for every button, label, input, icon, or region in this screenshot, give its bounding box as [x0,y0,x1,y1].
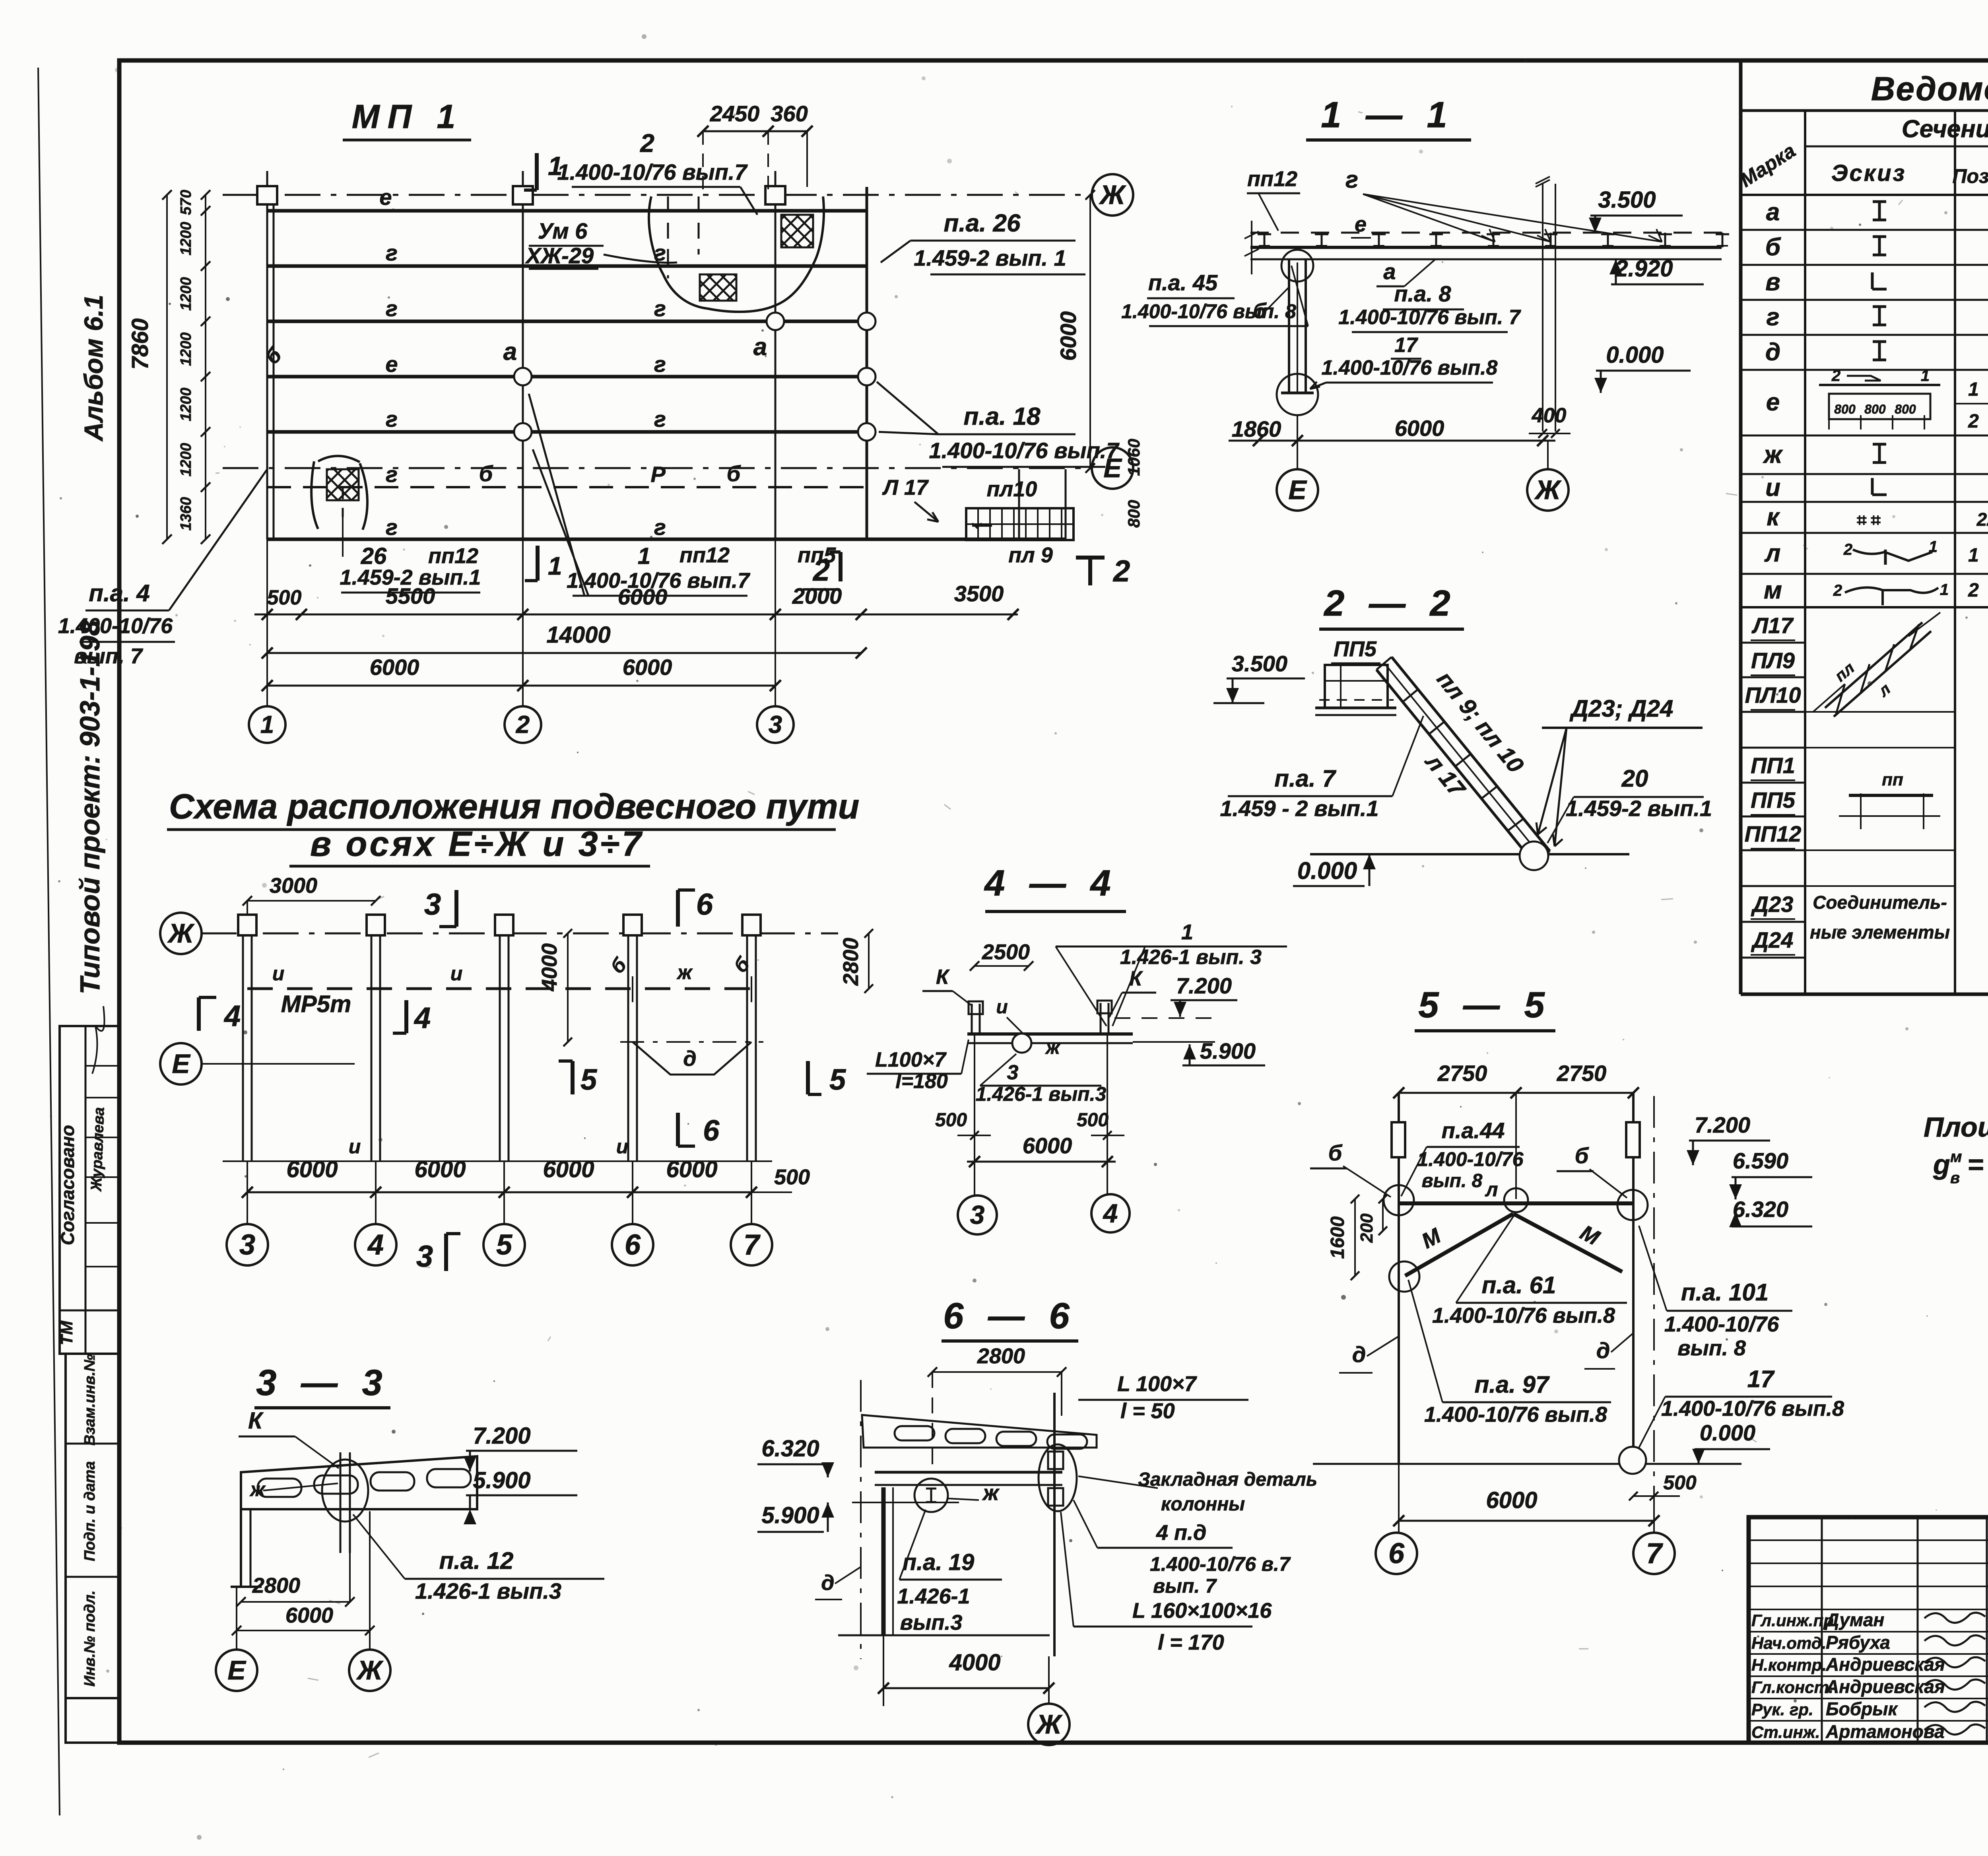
svg-text:вып.3: вып.3 [900,1611,963,1634]
svg-text:а: а [1383,259,1396,284]
svg-text:2: 2 [1831,367,1840,385]
svg-text:Е: Е [227,1655,247,1685]
svg-text:Площадка рассчитана на нагр: Площадка рассчитана на нагрузку [1924,1112,1988,1143]
svg-text:2800: 2800 [252,1574,300,1598]
svg-text:3.500: 3.500 [1232,651,1287,676]
svg-text:⌗ ⌗: ⌗ ⌗ [1857,511,1881,529]
svg-text:L 160×100×16: L 160×100×16 [1132,1599,1272,1623]
svg-text:4 п.д: 4 п.д [1156,1521,1206,1545]
svg-text:п.а. 61: п.а. 61 [1482,1272,1556,1298]
svg-text:1.400-10/76 вып.8: 1.400-10/76 вып.8 [1424,1403,1607,1426]
svg-text:2750: 2750 [1437,1061,1487,1086]
svg-text:0.000: 0.000 [1606,342,1664,368]
svg-text:2450: 2450 [710,101,760,126]
svg-text:п.а. 101: п.а. 101 [1681,1279,1769,1306]
svg-text:е: е [1355,212,1367,236]
svg-text:Андриевская: Андриевская [1825,1654,1945,1675]
svg-text:д: д [1352,1342,1366,1367]
svg-text:3500: 3500 [954,581,1004,606]
svg-text:и: и [1765,474,1780,501]
svg-text:Схема расположения подвесног: Схема расположения подвесного пути [169,787,859,826]
svg-text:вып. 8: вып. 8 [1422,1170,1483,1191]
svg-text:1.400-10/76 в.7: 1.400-10/76 в.7 [1150,1553,1291,1575]
svg-text:1.400-10/76: 1.400-10/76 [1664,1312,1779,1336]
svg-text:4: 4 [1103,1198,1118,1228]
svg-text:м: м [1764,577,1782,604]
svg-text:п.а. 18: п.а. 18 [964,403,1041,430]
svg-text:пп12: пп12 [1247,167,1297,191]
svg-text:1: 1 [1968,379,1979,400]
svg-text:Ж: Ж [356,1655,384,1685]
svg-text:1 — 1: 1 — 1 [1321,95,1454,135]
svg-text:2: 2 [1112,554,1130,588]
svg-text:6000: 6000 [543,1156,594,1182]
svg-text:7: 7 [1646,1537,1663,1569]
svg-text:6.320: 6.320 [1733,1197,1788,1222]
svg-text:п.а. 45: п.а. 45 [1148,270,1218,295]
svg-text:5500: 5500 [386,583,435,608]
svg-text:14000: 14000 [546,622,610,648]
svg-text:ПП1: ПП1 [1751,753,1795,778]
svg-text:2: 2 [1843,541,1852,558]
svg-text:1.459 - 2 вып.1: 1.459 - 2 вып.1 [1220,796,1378,821]
svg-text:ПП12: ПП12 [1745,821,1802,846]
svg-text:к: к [1767,503,1780,531]
svg-text:ные элементы: ные элементы [1810,922,1950,943]
svg-text:Е: Е [172,1049,191,1079]
svg-text:е: е [379,185,392,210]
svg-text:Рябуха: Рябуха [1826,1632,1890,1653]
svg-text:Согласовано: Согласовано [57,1125,78,1245]
svg-text:800: 800 [1895,402,1916,416]
svg-text:17: 17 [1394,334,1418,357]
svg-text:Н.контр.: Н.контр. [1751,1656,1827,1674]
svg-text:г: г [654,352,666,377]
svg-text:Подп. и дата: Подп. и дата [82,1461,98,1561]
svg-text:1200: 1200 [178,388,194,422]
svg-text:ж: ж [1044,1037,1061,1058]
svg-text:1360: 1360 [178,497,194,531]
svg-text:а: а [503,338,517,365]
svg-text:L100×7: L100×7 [875,1048,947,1071]
svg-text:Ведомость элементов на л. К: Ведомость элементов на л. КМ-5 [1871,70,1988,107]
svg-text:6000: 6000 [370,655,419,680]
svg-text:Закладная деталь: Закладная деталь [1138,1469,1317,1490]
svg-text:4000: 4000 [538,943,561,991]
svg-text:Ж: Ж [167,918,195,948]
svg-text:Л17: Л17 [1751,613,1794,638]
svg-text:ж: ж [249,1478,266,1500]
svg-text:200: 200 [1357,1213,1376,1243]
svg-text:2: 2 [1968,411,1979,432]
svg-text:6: 6 [625,1229,641,1261]
svg-text:г: г [654,296,666,321]
svg-text:6000: 6000 [1023,1133,1072,1158]
svg-text:2750: 2750 [1557,1061,1607,1086]
svg-text:д: д [1765,338,1780,366]
svg-text:а: а [1766,198,1780,226]
svg-text:1.400-10/76 вып. 7: 1.400-10/76 вып. 7 [1338,306,1521,329]
svg-text:г: г [1345,166,1358,193]
svg-text:400: 400 [1532,404,1567,427]
svg-text:3: 3 [1007,1061,1019,1084]
svg-text:и: и [996,997,1008,1018]
svg-text:3: 3 [424,888,441,921]
svg-text:Нач.отд.: Нач.отд. [1751,1634,1826,1652]
svg-text:Гл.инж.пр: Гл.инж.пр [1751,1611,1834,1630]
svg-text:6000: 6000 [1486,1487,1537,1513]
svg-text:1: 1 [548,552,562,580]
svg-text:в осях Е÷Ж и 3÷7: в осях Е÷Ж и 3÷7 [310,824,644,863]
svg-text:1.400-10/76: 1.400-10/76 [58,614,173,638]
svg-text:0.000: 0.000 [1297,857,1357,884]
svg-text:800: 800 [1124,500,1143,528]
svg-text:а: а [753,333,767,361]
svg-text:г: г [654,406,666,431]
svg-text:l=180: l=180 [895,1070,948,1093]
svg-text:6: 6 [1388,1537,1405,1569]
svg-text:г: г [386,515,398,540]
svg-text:Гл.конст.: Гл.конст. [1751,1678,1833,1697]
svg-text:Инв.№ подл.: Инв.№ подл. [82,1590,98,1687]
svg-text:6: 6 [703,1114,720,1147]
svg-text:в: в [1765,268,1780,296]
svg-text:Д23: Д23 [1751,892,1794,917]
svg-text:г: г [386,296,398,321]
svg-text:1.400-10/76 вып.7: 1.400-10/76 вып.7 [557,159,748,185]
svg-text:22НС60х50х3: 22НС60х50х3 [1976,509,1988,530]
svg-text:6000: 6000 [1395,416,1444,441]
svg-text:1: 1 [548,151,563,181]
svg-text:500: 500 [1077,1110,1109,1131]
svg-text:Е: Е [1288,475,1307,505]
svg-text:б: б [479,461,493,486]
svg-text:МП 1: МП 1 [352,98,463,135]
svg-text:Р: Р [650,462,666,487]
svg-text:1.400-10/76 вып.7: 1.400-10/76 вып.7 [929,438,1120,463]
svg-text:д: д [683,1047,696,1071]
svg-text:пл10: пл10 [987,477,1037,501]
svg-text:1.400-10/76 вып. 8: 1.400-10/76 вып. 8 [1121,300,1296,323]
svg-text:500: 500 [774,1165,810,1189]
svg-text:2: 2 [812,554,830,587]
svg-text:Ст.инж.: Ст.инж. [1751,1723,1820,1741]
svg-text:Взам.инв.№: Взам.инв.№ [82,1354,98,1446]
svg-text:1.400-10/76 вып.8: 1.400-10/76 вып.8 [1661,1397,1844,1421]
svg-text:570: 570 [178,190,194,215]
svg-text:500: 500 [935,1110,967,1131]
svg-text:Рук. гр.: Рук. гр. [1751,1700,1813,1719]
svg-text:2500: 2500 [982,940,1030,964]
svg-text:2: 2 [516,711,530,739]
svg-text:г: г [654,515,666,540]
svg-text:6: 6 [696,888,713,921]
svg-text:1.426-1 вып.3: 1.426-1 вып.3 [976,1083,1107,1105]
svg-text:6000: 6000 [618,584,668,609]
svg-text:п.а. 19: п.а. 19 [903,1549,975,1575]
svg-text:5: 5 [829,1063,846,1096]
svg-text:1060: 1060 [1124,439,1143,476]
svg-text:6000: 6000 [285,1603,333,1627]
svg-text:Поз.: Поз. [1953,165,1988,187]
svg-text:2800: 2800 [839,938,863,986]
svg-text:1: 1 [1929,538,1938,556]
svg-text:пп12: пп12 [428,544,478,568]
svg-text:3: 3 [970,1200,985,1229]
svg-text:Д24: Д24 [1751,927,1794,952]
svg-text:1.459-2 вып. 1: 1.459-2 вып. 1 [914,245,1066,270]
svg-text:пп: пп [1882,770,1903,789]
svg-text:3: 3 [769,711,782,739]
svg-text:3: 3 [416,1240,433,1273]
svg-text:1: 1 [1968,545,1979,566]
svg-text:Соединитель-: Соединитель- [1813,892,1947,913]
svg-text:5: 5 [496,1229,513,1261]
svg-text:7: 7 [744,1229,761,1261]
svg-text:п.а. 7: п.а. 7 [1274,765,1336,792]
svg-text:колонны: колонны [1161,1494,1245,1515]
svg-text:1.459-2 вып.1: 1.459-2 вып.1 [1566,796,1712,821]
svg-text:МР5т: МР5т [281,991,351,1017]
svg-text:6 — 6: 6 — 6 [943,1296,1076,1336]
svg-text:2.920: 2.920 [1615,256,1673,282]
svg-text:1860: 1860 [1232,416,1281,441]
svg-text:7.200: 7.200 [1176,973,1232,998]
svg-text:б: б [727,461,741,486]
svg-text:800: 800 [1834,402,1856,416]
svg-text:и: и [272,962,285,985]
svg-text:К: К [248,1408,264,1434]
svg-text:20: 20 [1621,765,1648,792]
svg-text:4 — 4: 4 — 4 [984,863,1118,904]
svg-text:Ж: Ж [1099,180,1126,210]
svg-text:К: К [936,966,950,989]
svg-text:вып. 7: вып. 7 [74,644,144,668]
svg-text:б: б [1765,233,1781,261]
svg-text:1: 1 [1940,581,1949,599]
svg-text:1200: 1200 [178,222,194,256]
svg-text:4: 4 [223,999,241,1032]
svg-text:500: 500 [267,586,302,609]
svg-text:е: е [1766,389,1780,416]
svg-text:3 — 3: 3 — 3 [256,1362,389,1403]
svg-text:1200: 1200 [178,277,194,311]
svg-text:г: г [1766,303,1779,331]
svg-text:2000: 2000 [792,583,842,608]
svg-text:5: 5 [580,1063,598,1096]
svg-text:д: д [821,1571,834,1595]
svg-text:Сечение: Сечение [1902,115,1988,143]
svg-text:1: 1 [1921,367,1930,385]
svg-text:и: и [349,1135,361,1158]
svg-text:Л 17: Л 17 [882,476,929,499]
svg-text:5.900: 5.900 [761,1502,819,1528]
svg-text:и: и [450,962,463,985]
svg-text:1.400-10/76 вып.8: 1.400-10/76 вып.8 [1432,1304,1615,1327]
svg-text:g: g [1933,1149,1950,1180]
svg-text:L 100×7: L 100×7 [1117,1372,1198,1396]
svg-text:вып. 7: вып. 7 [1153,1575,1217,1597]
svg-text:3.500: 3.500 [1598,187,1656,213]
svg-text:1.400-10/76: 1.400-10/76 [1417,1148,1524,1170]
svg-text:п.а.44: п.а.44 [1442,1118,1505,1143]
svg-text:6.320: 6.320 [761,1436,819,1461]
svg-text:ТМ: ТМ [57,1320,76,1345]
svg-text:е: е [385,352,398,377]
svg-text:1: 1 [1181,920,1193,944]
svg-text:7.200: 7.200 [473,1423,530,1449]
svg-text:Артамонова: Артамонова [1825,1721,1945,1742]
svg-text:6000: 6000 [1056,311,1081,361]
svg-text:л: л [1485,1178,1498,1201]
svg-text:l = 170: l = 170 [1158,1631,1224,1654]
svg-text:б: б [1328,1140,1343,1165]
svg-text:3000: 3000 [270,874,317,898]
svg-text:Ум 6: Ум 6 [538,218,588,243]
svg-text:г: г [386,240,398,265]
svg-text:4000: 4000 [949,1650,1000,1675]
svg-text:1.426-1: 1.426-1 [897,1584,970,1608]
svg-text:п.а. 97: п.а. 97 [1475,1371,1550,1398]
svg-text:б: б [1575,1143,1589,1168]
svg-text:2800: 2800 [977,1344,1025,1368]
svg-text:4: 4 [367,1229,384,1261]
svg-text:6000: 6000 [623,655,672,680]
svg-text:г: г [386,462,398,487]
svg-text:ПЛ10: ПЛ10 [1745,682,1801,707]
svg-text:ж: ж [676,961,693,983]
svg-text:в: в [1950,1169,1960,1187]
svg-text:ПЛ9: ПЛ9 [1751,648,1795,673]
svg-text:1.400-10/76 вып.8: 1.400-10/76 вып.8 [1322,356,1498,379]
svg-text:К: К [1129,967,1143,990]
svg-text:1: 1 [260,711,274,739]
svg-text:500: 500 [1663,1471,1697,1494]
svg-text:Ж: Ж [1035,1709,1063,1739]
svg-text:1200: 1200 [178,332,194,366]
svg-text:ПП5: ПП5 [1334,637,1377,661]
svg-text:Бобрык: Бобрык [1826,1699,1899,1719]
svg-text:Д23; Д24: Д23; Д24 [1569,695,1673,722]
svg-text:5.900: 5.900 [473,1467,530,1493]
svg-text:1.426-1 вып.3: 1.426-1 вып.3 [415,1578,561,1603]
svg-text:6.590: 6.590 [1733,1148,1788,1173]
svg-text:Эскиз: Эскиз [1831,160,1906,186]
svg-text:ж: ж [982,1481,1000,1505]
svg-text:6000: 6000 [286,1156,338,1182]
svg-text:Журавлева: Журавлева [88,1107,107,1192]
svg-text:5 — 5: 5 — 5 [1418,985,1551,1025]
svg-text:1600: 1600 [1327,1216,1348,1259]
svg-text:п.а. 8: п.а. 8 [1394,281,1451,306]
svg-text:Типовой проект: 903-1-198: Типовой проект: 903-1-198 [74,620,105,995]
svg-text:6000: 6000 [414,1156,466,1182]
svg-text:2: 2 [640,129,654,157]
svg-text:Ж: Ж [1534,475,1562,505]
svg-text:6000: 6000 [666,1156,717,1182]
svg-text:7860: 7860 [127,318,153,369]
svg-text:пл 9: пл 9 [1008,543,1053,567]
svg-text:= 6,6 к ПА (660 кг/м: = 6,6 к ПА (660 кг/м [1967,1149,1988,1180]
svg-text:Думан: Думан [1824,1609,1884,1630]
svg-text:д: д [1596,1338,1610,1363]
svg-text:и: и [616,1135,629,1158]
svg-text:3: 3 [239,1229,255,1261]
svg-text:Альбом 6.1: Альбом 6.1 [79,295,108,442]
svg-text:800: 800 [1864,402,1886,416]
svg-text:360: 360 [771,101,808,126]
svg-text:0.000: 0.000 [1700,1420,1755,1445]
svg-text:п.а. 26: п.а. 26 [944,210,1021,237]
svg-text:ж: ж [1763,441,1783,468]
svg-text:л: л [1764,540,1781,567]
svg-text:1200: 1200 [178,443,194,477]
svg-text:2 — 2: 2 — 2 [1323,583,1457,624]
svg-text:Андриевская: Андриевская [1825,1676,1945,1697]
svg-text:7.200: 7.200 [1695,1112,1750,1137]
svg-text:м: м [1950,1148,1962,1166]
svg-text:l = 50: l = 50 [1120,1399,1175,1423]
svg-text:вып. 8: вып. 8 [1677,1336,1746,1360]
svg-text:4: 4 [414,1001,431,1034]
svg-text:2: 2 [1833,582,1842,599]
svg-text:17: 17 [1747,1366,1775,1392]
svg-text:2: 2 [1968,580,1979,601]
svg-text:пп12: пп12 [679,543,730,567]
svg-text:г: г [386,406,398,431]
svg-text:1: 1 [638,543,650,569]
svg-text:п.а. 12: п.а. 12 [439,1547,514,1574]
svg-text:ПП5: ПП5 [1751,787,1796,812]
svg-text:п.а. 4: п.а. 4 [89,580,149,606]
